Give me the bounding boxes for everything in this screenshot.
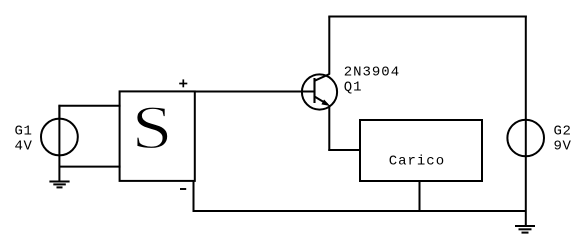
svg-text:G2: G2 <box>554 123 572 139</box>
wire Carico bottom to bottom rail <box>419 181 421 212</box>
wire G1 top to S-box <box>58 105 120 107</box>
wire G1 top riser <box>58 105 60 118</box>
wire G1 bottom to S-box <box>59 166 120 168</box>
svg-text:Carico: Carico <box>389 154 445 170</box>
voltage source G2 <box>507 120 544 157</box>
block S (controlled switch) <box>120 91 195 180</box>
svg-text:S: S <box>132 94 173 162</box>
wire G1 through-line down to ground <box>58 106 60 182</box>
wire S-box minus terminal down to bottom rail <box>193 181 195 213</box>
label minus terminal <box>180 188 186 190</box>
wire G2 top drop <box>525 16 527 121</box>
voltage source G1 <box>41 119 78 156</box>
wire top rail <box>328 16 527 18</box>
wire G2 through-line down to ground <box>525 120 527 225</box>
wire base from S-box plus terminal <box>195 91 315 93</box>
wire emitter to Carico <box>328 149 361 151</box>
ground under G1 <box>49 182 69 188</box>
svg-text:9V: 9V <box>554 139 572 155</box>
wire emitter drop <box>328 105 330 151</box>
wire bottom rail <box>194 210 526 212</box>
wire collector riser <box>328 17 330 75</box>
label plus terminal <box>179 79 187 87</box>
svg-text:Q1: Q1 <box>344 79 363 95</box>
transistor Q1 <box>302 74 337 110</box>
ground under G2 <box>515 226 535 233</box>
svg-text:G1: G1 <box>15 124 33 140</box>
svg-text:2N3904: 2N3904 <box>344 64 400 80</box>
svg-text:4V: 4V <box>15 138 33 154</box>
block Carico <box>360 120 482 181</box>
